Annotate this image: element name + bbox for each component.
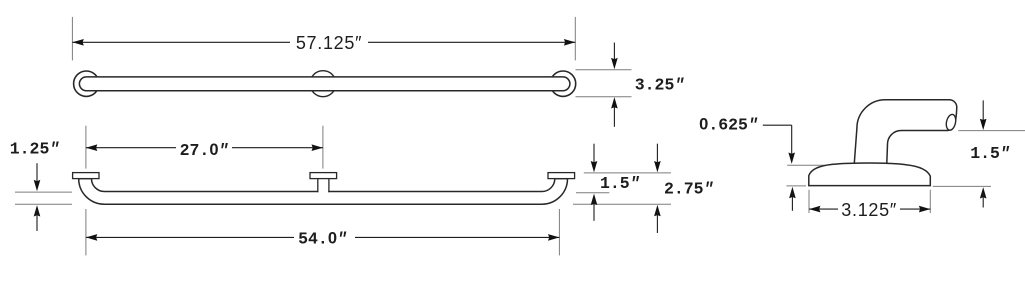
center mounting circle (top view) (310, 71, 336, 97)
svg-text:2.75″: 2.75″ (664, 179, 714, 198)
right flange plate (side view) (548, 173, 575, 179)
grab bar tube (top view) (79, 77, 570, 91)
flange bottom extension right (933, 185, 991, 187)
svg-text:3.25″: 3.25″ (635, 75, 685, 94)
1.25 upper arrow (36, 163, 38, 185)
3.125 dim extension line left (808, 190, 810, 213)
arrowhead right 54.0 (548, 234, 559, 241)
54.0 dim extension line right (558, 209, 560, 255)
arrowhead right 27.0 (312, 144, 323, 151)
27.0 dim extension line left (85, 126, 87, 169)
dimension line 3.125 (809, 208, 838, 210)
3.25 lower arrow (613, 103, 615, 127)
0.625 extension line (flange top level) (787, 164, 827, 166)
1.5 / 2.75 shared top extension line (flange top) (584, 172, 671, 174)
1.5 (end detail) upper arrow (982, 100, 984, 124)
svg-text:0.625″: 0.625″ (699, 115, 758, 134)
middle mount stem (side view) (319, 179, 329, 193)
svg-text:1.5″: 1.5″ (600, 174, 640, 193)
dimension line 57.125 (72, 41, 290, 43)
arrowhead right 3.125 (919, 206, 930, 213)
flange dome (end detail) (809, 163, 931, 186)
3.125 dim extension line right (929, 190, 931, 213)
tube end opening ellipse (945, 114, 957, 132)
extension line left of 57.125 dim (71, 17, 73, 61)
right flange circle (top view) (550, 71, 575, 96)
0.625 leader (763, 124, 792, 126)
left flange circle (top view) (74, 71, 99, 96)
arrowhead left 3.125 (809, 206, 820, 213)
middle flange plate (side view) (310, 173, 337, 179)
dimension line 54.0 (86, 236, 294, 238)
tube-top extension line (1.5 bottom) (576, 192, 609, 194)
extension line right of 57.125 dim (574, 17, 576, 61)
flange bottom extension left (786, 185, 806, 187)
1.5 upper arrow (593, 144, 595, 166)
svg-text:1.25″: 1.25″ (10, 139, 60, 158)
arrowhead left 27.0 (86, 144, 97, 151)
svg-text:27.0″: 27.0″ (180, 141, 229, 160)
27.0 dim extension line right (322, 126, 324, 169)
svg-text:3.125″: 3.125″ (841, 200, 897, 220)
svg-text:57.125″: 57.125″ (296, 33, 362, 53)
1.25 lower arrow (34, 205, 41, 216)
dimension line 27.0 (86, 147, 176, 149)
tube-bottom extension line (2.75 bottom) (573, 203, 671, 205)
grab bar tube (end detail) (854, 100, 957, 166)
54.0 dim extension line left (85, 209, 87, 255)
2.75 upper arrow (656, 144, 658, 166)
svg-text:54.0″: 54.0″ (298, 230, 347, 249)
3.25 upper arrow (613, 43, 615, 64)
left flange plate (side view) (73, 173, 99, 179)
grab bar tube (side view) (79, 179, 568, 205)
1.25 extension lines (15, 191, 72, 193)
0.625 lower arrow (789, 187, 796, 198)
tube bottom extension right (958, 130, 1025, 132)
1.5 (end detail) lower arrow (980, 187, 987, 198)
arrowhead left 57.125 (72, 39, 83, 46)
arrowhead right 57.125 (564, 39, 575, 46)
svg-text:1.5″: 1.5″ (970, 144, 1010, 163)
1.5 lower arrow (591, 194, 598, 205)
2.75 lower arrow (654, 205, 661, 216)
3.25 dim extension lines (576, 69, 632, 71)
arrowhead left 54.0 (86, 234, 97, 241)
